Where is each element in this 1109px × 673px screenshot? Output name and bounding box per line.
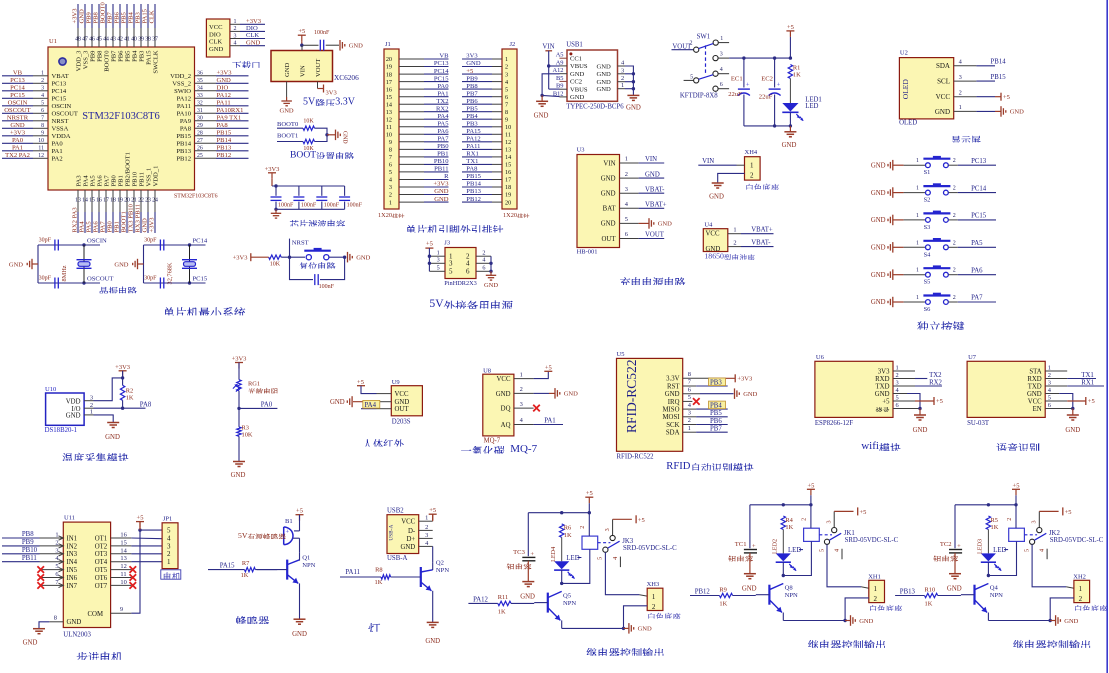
svg-text:GND: GND <box>709 194 724 201</box>
svg-text:IN3: IN3 <box>67 551 78 558</box>
svg-text:S4: S4 <box>924 251 932 258</box>
svg-text:LED4: LED4 <box>550 547 557 562</box>
svg-text:7: 7 <box>41 116 44 122</box>
svg-text:+3V3: +3V3 <box>265 166 280 173</box>
svg-text:OT2: OT2 <box>95 543 108 550</box>
svg-text:PA11: PA11 <box>466 143 480 150</box>
svg-text:COM: COM <box>88 611 104 618</box>
svg-text:PB11: PB11 <box>138 172 145 186</box>
svg-text:PB14: PB14 <box>217 137 232 144</box>
svg-text:100nF: 100nF <box>278 203 294 209</box>
svg-text:PB8: PB8 <box>22 531 34 538</box>
svg-text:100nF: 100nF <box>347 203 363 209</box>
svg-text:GND: GND <box>246 39 261 46</box>
svg-text:6: 6 <box>482 265 485 272</box>
svg-text:PA7: PA7 <box>437 136 449 143</box>
svg-text:2: 2 <box>690 41 693 47</box>
svg-text:GND: GND <box>871 272 886 279</box>
svg-text:U1: U1 <box>49 38 57 45</box>
svg-text:5: 5 <box>896 395 899 402</box>
svg-text:1: 1 <box>688 425 691 432</box>
svg-text:+5: +5 <box>936 398 943 405</box>
svg-text:2: 2 <box>621 75 624 82</box>
svg-text:J2: J2 <box>510 41 516 48</box>
svg-text:GND: GND <box>570 94 585 101</box>
svg-text:2: 2 <box>750 172 754 180</box>
svg-text:PA8: PA8 <box>180 126 192 133</box>
svg-text:PA12: PA12 <box>217 92 231 99</box>
svg-text:32: 32 <box>197 101 203 107</box>
svg-text:PB4: PB4 <box>131 50 138 62</box>
svg-text:XH2: XH2 <box>1073 573 1086 580</box>
svg-text:AQ: AQ <box>501 422 511 429</box>
svg-text:VIN: VIN <box>645 156 657 163</box>
svg-text:5: 5 <box>389 169 392 176</box>
svg-text:SWCLK: SWCLK <box>152 50 159 73</box>
svg-text:TX3 PB10: TX3 PB10 <box>128 203 135 232</box>
svg-text:1: 1 <box>625 156 628 163</box>
svg-text:VBAT: VBAT <box>52 73 69 80</box>
svg-text:PB13: PB13 <box>176 148 191 155</box>
svg-text:PB14: PB14 <box>991 59 1007 66</box>
svg-text:2: 2 <box>234 26 237 32</box>
svg-text:14: 14 <box>505 154 511 161</box>
svg-text:VBAT-: VBAT- <box>751 239 771 246</box>
svg-text:PA9: PA9 <box>180 118 192 125</box>
svg-text:U11: U11 <box>64 515 75 522</box>
svg-text:PA2: PA2 <box>52 156 63 163</box>
svg-text:PB6: PB6 <box>117 50 124 62</box>
svg-text:GND: GND <box>217 77 232 84</box>
svg-text:VCC: VCC <box>706 231 720 238</box>
svg-text:SCK: SCK <box>666 422 679 429</box>
svg-text:5: 5 <box>437 265 440 272</box>
svg-text:PB13: PB13 <box>217 145 232 152</box>
svg-text:B5: B5 <box>556 75 563 82</box>
svg-text:+3V3: +3V3 <box>246 18 262 25</box>
svg-text:2: 2 <box>953 186 956 192</box>
svg-text:3: 3 <box>604 528 611 531</box>
svg-text:B1: B1 <box>285 518 293 525</box>
svg-text:PB12: PB12 <box>176 156 191 163</box>
svg-text:RST: RST <box>667 383 680 390</box>
svg-text:1: 1 <box>505 56 508 63</box>
svg-text:13: 13 <box>505 147 511 154</box>
svg-text:3: 3 <box>1031 520 1038 523</box>
svg-text:OT3: OT3 <box>95 551 108 558</box>
svg-text:BOOT1: BOOT1 <box>277 133 298 140</box>
svg-text:OSCOUT: OSCOUT <box>87 276 113 283</box>
svg-text:1: 1 <box>916 295 919 301</box>
svg-text:PB0: PB0 <box>437 143 449 150</box>
svg-text:+: + <box>530 551 534 558</box>
svg-text:4: 4 <box>720 67 723 73</box>
svg-text:1: 1 <box>520 371 523 378</box>
svg-text:11: 11 <box>386 124 392 131</box>
svg-text:5V: 5V <box>238 531 248 540</box>
svg-text:USB1: USB1 <box>566 42 583 49</box>
svg-text:NPN: NPN <box>785 592 798 599</box>
svg-text:PB9: PB9 <box>22 539 34 546</box>
svg-text:5: 5 <box>505 86 508 93</box>
svg-text:OT6: OT6 <box>95 575 108 582</box>
svg-text:RG1: RG1 <box>248 380 260 387</box>
svg-text:14: 14 <box>82 198 88 204</box>
svg-text:5V: 5V <box>303 97 316 108</box>
svg-text:VDD: VDD <box>66 398 81 405</box>
svg-text:PB4: PB4 <box>710 403 722 410</box>
svg-text:2: 2 <box>625 171 628 178</box>
svg-text:2: 2 <box>652 603 656 611</box>
svg-text:PA12: PA12 <box>466 136 480 143</box>
svg-text:6: 6 <box>55 571 58 578</box>
svg-text:MOSI: MOSI <box>663 414 681 421</box>
svg-text:Q1: Q1 <box>302 555 310 562</box>
svg-text:1K: 1K <box>375 579 383 586</box>
svg-text:U10: U10 <box>45 386 57 393</box>
svg-text:PB1: PB1 <box>117 175 124 186</box>
svg-text:STA: STA <box>1029 368 1041 375</box>
svg-text:36: 36 <box>197 71 203 77</box>
svg-text:3: 3 <box>55 547 58 554</box>
svg-text:VBAT+: VBAT+ <box>645 202 667 209</box>
svg-text:GND: GND <box>935 108 950 116</box>
svg-text:IN5: IN5 <box>67 567 78 574</box>
svg-text:U2: U2 <box>900 50 908 57</box>
svg-text:PA5: PA5 <box>89 175 96 187</box>
svg-text:PB12: PB12 <box>217 152 232 159</box>
svg-text:IN4: IN4 <box>67 559 78 566</box>
svg-text:USB2: USB2 <box>387 508 404 515</box>
svg-text:4: 4 <box>466 260 470 268</box>
svg-text:OT7: OT7 <box>95 583 108 590</box>
svg-text:VCC: VCC <box>497 376 511 383</box>
svg-text:R6: R6 <box>564 525 571 532</box>
svg-text:VB: VB <box>13 70 23 77</box>
svg-text:PB10: PB10 <box>22 547 38 554</box>
svg-text:16: 16 <box>120 532 126 539</box>
svg-text:2: 2 <box>389 192 392 199</box>
svg-text:1K: 1K <box>925 601 933 608</box>
svg-text:PA15: PA15 <box>145 50 152 65</box>
svg-text:5: 5 <box>1048 395 1051 402</box>
svg-text:1: 1 <box>916 158 919 164</box>
svg-text:28: 28 <box>197 131 203 137</box>
svg-text:9: 9 <box>41 131 44 137</box>
svg-text:GND: GND <box>597 63 612 70</box>
svg-text:IN1: IN1 <box>67 535 78 542</box>
svg-text:KFTDIP-8X8: KFTDIP-8X8 <box>680 93 718 100</box>
svg-text:DQ: DQ <box>501 406 511 413</box>
svg-text:VBUS: VBUS <box>570 87 588 94</box>
svg-text:PB5: PB5 <box>710 410 722 417</box>
svg-text:19: 19 <box>117 198 123 204</box>
svg-text:DIO: DIO <box>209 31 221 38</box>
svg-text:PA5: PA5 <box>437 121 449 128</box>
svg-text:PB12: PB12 <box>466 196 481 203</box>
svg-text:PB9: PB9 <box>86 11 93 23</box>
svg-text:5: 5 <box>167 527 171 535</box>
svg-text:RFID: RFID <box>666 461 690 472</box>
svg-text:GND: GND <box>871 162 886 169</box>
svg-text:OSCIN: OSCIN <box>87 238 107 245</box>
svg-text:IN2: IN2 <box>67 543 78 550</box>
svg-text:11: 11 <box>120 571 126 578</box>
svg-text:6: 6 <box>41 108 44 114</box>
svg-text:2: 2 <box>505 64 508 71</box>
svg-text:31: 31 <box>197 108 203 114</box>
svg-text:CLK: CLK <box>209 39 222 46</box>
svg-text:1X20: 1X20 <box>378 212 392 219</box>
svg-text:R7: R7 <box>242 560 250 567</box>
svg-text:2: 2 <box>733 239 736 246</box>
svg-text:LED: LED <box>805 103 818 110</box>
svg-text:2: 2 <box>482 249 485 256</box>
svg-text:R9: R9 <box>719 586 726 593</box>
svg-text:15: 15 <box>89 198 95 204</box>
svg-text:+5: +5 <box>357 379 364 386</box>
svg-text:3: 3 <box>826 520 833 523</box>
svg-text:17: 17 <box>505 177 511 184</box>
svg-text:GND: GND <box>496 391 511 398</box>
svg-text:20: 20 <box>386 56 392 63</box>
svg-text:U4: U4 <box>704 222 713 229</box>
svg-text:18: 18 <box>110 198 116 204</box>
svg-text:GND: GND <box>466 60 481 67</box>
svg-text:1: 1 <box>41 71 44 77</box>
svg-text:19: 19 <box>505 192 511 199</box>
svg-text:BOOT: BOOT <box>290 150 316 161</box>
svg-text:GND: GND <box>859 618 873 625</box>
svg-text:2: 2 <box>425 524 428 531</box>
svg-text:+5: +5 <box>807 482 814 489</box>
svg-text:SW1: SW1 <box>697 34 711 41</box>
svg-text:PB1: PB1 <box>114 221 121 232</box>
svg-text:VCC: VCC <box>395 391 409 398</box>
svg-text:PA8: PA8 <box>140 401 152 408</box>
svg-text:Q8: Q8 <box>785 585 794 592</box>
svg-text:SDA: SDA <box>936 62 950 70</box>
svg-text:12: 12 <box>38 153 44 159</box>
svg-text:GND: GND <box>601 221 616 228</box>
svg-text:VDD_3: VDD_3 <box>75 50 82 72</box>
svg-text:4: 4 <box>41 93 44 99</box>
svg-text:PA4: PA4 <box>82 175 89 187</box>
svg-text:44: 44 <box>103 37 109 43</box>
svg-text:PB13: PB13 <box>900 589 916 596</box>
svg-text:15: 15 <box>386 94 392 101</box>
svg-text:3V3: 3V3 <box>326 90 337 97</box>
svg-text:46: 46 <box>89 37 95 43</box>
svg-text:5: 5 <box>55 563 58 570</box>
svg-text:47: 47 <box>82 37 88 43</box>
svg-text:VDD_2: VDD_2 <box>170 73 191 80</box>
svg-text:48: 48 <box>75 37 81 43</box>
svg-text:1K: 1K <box>991 524 999 531</box>
svg-text:HB-001: HB-001 <box>577 249 598 256</box>
svg-text:42: 42 <box>117 37 123 43</box>
svg-text:10: 10 <box>120 579 126 586</box>
svg-text:R10: R10 <box>925 586 936 593</box>
svg-text:J3: J3 <box>444 240 450 247</box>
svg-text:BOOT1: BOOT1 <box>121 211 128 232</box>
svg-text:GND: GND <box>330 399 345 406</box>
svg-text:8: 8 <box>505 109 508 116</box>
svg-text:1K: 1K <box>498 608 506 615</box>
svg-text:4: 4 <box>834 549 841 552</box>
svg-text:3.3V: 3.3V <box>666 376 679 383</box>
svg-text:GND: GND <box>626 105 641 112</box>
svg-text:16: 16 <box>505 169 511 176</box>
svg-text:GND: GND <box>1065 427 1080 434</box>
svg-text:GND: GND <box>67 619 82 626</box>
svg-text:CLK: CLK <box>246 32 259 39</box>
svg-text:24: 24 <box>152 198 158 204</box>
svg-text:1: 1 <box>234 19 237 25</box>
svg-text:2: 2 <box>874 595 878 603</box>
svg-text:PB14: PB14 <box>466 181 481 188</box>
svg-text:1: 1 <box>1048 365 1051 372</box>
svg-text:TXD: TXD <box>1028 383 1042 390</box>
svg-text:2: 2 <box>167 550 171 558</box>
svg-text:1: 1 <box>916 213 919 219</box>
svg-text:GND: GND <box>484 282 498 289</box>
svg-text:PA11: PA11 <box>345 569 360 576</box>
svg-text:PB2/BOOT1: PB2/BOOT1 <box>124 152 131 186</box>
svg-text:1: 1 <box>916 186 919 192</box>
svg-text:PB5: PB5 <box>124 50 131 62</box>
svg-text:PA6: PA6 <box>96 175 103 187</box>
svg-text:6: 6 <box>466 268 470 276</box>
svg-text:GND: GND <box>782 142 797 149</box>
svg-text:10: 10 <box>505 124 511 131</box>
svg-text:3V3: 3V3 <box>466 53 478 60</box>
svg-text:+: + <box>957 543 961 550</box>
svg-text:OSCIN: OSCIN <box>8 100 28 107</box>
svg-text:4: 4 <box>612 557 619 560</box>
svg-text:7: 7 <box>389 154 392 161</box>
svg-text:4: 4 <box>505 79 508 86</box>
svg-text:R: R <box>444 173 449 180</box>
svg-text:5: 5 <box>690 74 693 80</box>
svg-text:100nF: 100nF <box>314 30 330 36</box>
svg-text:+5: +5 <box>1003 94 1010 101</box>
svg-text:PB15: PB15 <box>217 130 232 137</box>
svg-text:2: 2 <box>953 158 956 164</box>
svg-text:TX1: TX1 <box>1081 372 1093 379</box>
svg-text:PA6: PA6 <box>971 267 983 274</box>
svg-text:PA12: PA12 <box>177 96 191 103</box>
svg-text:+5: +5 <box>638 517 645 524</box>
svg-text:30pF: 30pF <box>144 238 157 244</box>
svg-text:IN7: IN7 <box>67 583 78 590</box>
svg-text:PA15: PA15 <box>220 563 235 570</box>
svg-text:PA11: PA11 <box>177 103 191 110</box>
svg-text:GND: GND <box>871 245 886 252</box>
svg-text:PB3: PB3 <box>135 11 142 23</box>
svg-text:43: 43 <box>110 37 116 43</box>
svg-text:CC2: CC2 <box>570 79 582 86</box>
svg-text:JK2: JK2 <box>1049 530 1061 537</box>
svg-text:1: 1 <box>720 36 723 42</box>
svg-text:+: + <box>286 529 290 536</box>
svg-text:OT1: OT1 <box>95 535 107 542</box>
svg-text:A5: A5 <box>556 52 564 59</box>
svg-text:35: 35 <box>197 78 203 84</box>
svg-text:GND: GND <box>658 221 672 228</box>
svg-text:100nF: 100nF <box>301 203 317 209</box>
svg-text:27: 27 <box>197 138 203 144</box>
svg-text:BOOT0: BOOT0 <box>100 2 107 24</box>
svg-text:GND: GND <box>142 218 149 233</box>
svg-text:100nF: 100nF <box>319 284 335 290</box>
svg-text:R4: R4 <box>785 517 793 524</box>
svg-text:25: 25 <box>197 153 203 159</box>
svg-text:PA7: PA7 <box>100 221 107 233</box>
svg-text:OLED: OLED <box>901 79 910 100</box>
svg-text:5: 5 <box>449 268 453 276</box>
svg-text:PB0: PB0 <box>107 220 114 232</box>
svg-text:OT4: OT4 <box>95 559 108 566</box>
svg-text:30: 30 <box>197 116 203 122</box>
svg-text:DIO: DIO <box>246 25 258 32</box>
svg-text:PA0: PA0 <box>52 141 64 148</box>
svg-text:32,768K: 32,768K <box>167 262 174 284</box>
svg-text:D203S: D203S <box>392 419 411 426</box>
svg-text:PB9: PB9 <box>466 75 478 82</box>
svg-text:JP1: JP1 <box>163 515 172 522</box>
svg-text:VIN: VIN <box>299 65 306 77</box>
svg-text:XC6206: XC6206 <box>334 73 359 82</box>
svg-text:2: 2 <box>959 89 962 96</box>
svg-text:+: + <box>777 82 781 89</box>
svg-text:CLK: CLK <box>149 10 156 23</box>
svg-text:NPN: NPN <box>436 567 449 574</box>
svg-text:GND: GND <box>400 544 415 551</box>
svg-text:GND: GND <box>79 9 86 24</box>
svg-text:GND: GND <box>1027 391 1042 398</box>
svg-text:TX2: TX2 <box>929 372 942 379</box>
svg-text:RX1: RX1 <box>1081 379 1094 386</box>
svg-text:U3: U3 <box>577 147 585 154</box>
svg-text:wifi: wifi <box>861 440 879 452</box>
svg-text:GND: GND <box>947 586 962 593</box>
svg-text:USB-A: USB-A <box>387 555 407 562</box>
svg-text:PB9: PB9 <box>89 50 96 62</box>
svg-text:4: 4 <box>389 177 392 184</box>
svg-text:D-: D- <box>408 528 416 535</box>
svg-text:3: 3 <box>90 394 93 401</box>
svg-text:1: 1 <box>1079 585 1083 593</box>
svg-text:PB3: PB3 <box>138 50 145 62</box>
svg-text:NPN: NPN <box>302 562 315 569</box>
svg-text:PB13: PB13 <box>466 188 481 195</box>
svg-text:R3: R3 <box>242 424 249 431</box>
svg-text:12: 12 <box>120 563 126 570</box>
svg-text:PB11: PB11 <box>434 166 448 173</box>
svg-text:PB8: PB8 <box>466 83 478 90</box>
svg-text:14: 14 <box>386 101 392 108</box>
svg-text:GND: GND <box>871 217 886 224</box>
svg-text:+5: +5 <box>296 508 303 515</box>
svg-text:17: 17 <box>386 79 392 86</box>
svg-text:PC15: PC15 <box>193 276 208 283</box>
svg-text:STM32F103C8T6: STM32F103C8T6 <box>82 111 160 122</box>
svg-text:PC13: PC13 <box>52 81 67 88</box>
svg-text:PA1: PA1 <box>437 90 448 97</box>
svg-text:GND: GND <box>1064 618 1078 625</box>
svg-text:PC15: PC15 <box>434 75 449 82</box>
